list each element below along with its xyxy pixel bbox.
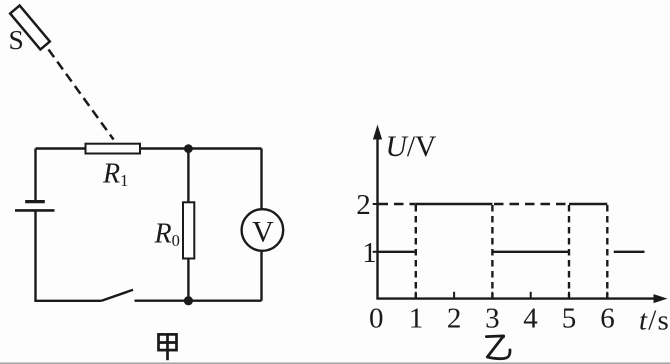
gridline dashed vertical t=3 bbox=[491, 205, 493, 298]
gridline dashed U=2 from axis to 1 bbox=[379, 203, 416, 205]
wire top-middle bbox=[140, 147, 262, 149]
gridline dashed vertical t=5 bbox=[568, 205, 570, 298]
caption yi (figure b) bbox=[486, 335, 510, 359]
scan artifact bottom line bbox=[0, 362, 670, 364]
x tick marks bbox=[416, 292, 608, 298]
caption jia (figure a) bbox=[159, 334, 177, 360]
waveform U=2 solid segment 5-6 bbox=[569, 203, 607, 205]
resistor R1 (photoresistor body) bbox=[86, 144, 141, 154]
svg-text:5: 5 bbox=[562, 303, 577, 335]
svg-text:V: V bbox=[252, 216, 274, 249]
svg-text:3: 3 bbox=[485, 303, 500, 335]
waveform U=1 solid segment 0-1 bbox=[378, 251, 416, 253]
node junction top bbox=[184, 144, 193, 153]
gridline dashed vertical t=6 bbox=[606, 205, 608, 298]
wire right vertical upper bbox=[260, 149, 262, 210]
svg-text:0: 0 bbox=[369, 303, 384, 335]
svg-text:4: 4 bbox=[523, 303, 538, 335]
wire bottom-left bbox=[35, 300, 102, 302]
battery long plate bbox=[15, 209, 55, 212]
switch blade bbox=[102, 290, 134, 301]
svg-text:6: 6 bbox=[600, 303, 615, 335]
light source S (lamp) bbox=[10, 6, 50, 50]
battery short plate bbox=[25, 200, 45, 203]
svg-text:S: S bbox=[9, 24, 24, 55]
wire top-left bbox=[36, 147, 86, 149]
resistor R0 body bbox=[183, 202, 194, 258]
wire bottom-right bbox=[135, 300, 262, 302]
gridline dashed vertical t=1 bbox=[415, 205, 417, 298]
wire right vertical lower bbox=[260, 251, 262, 301]
svg-text:1: 1 bbox=[362, 237, 377, 269]
wire left vertical lower bbox=[34, 210, 36, 302]
waveform U=1 solid segment 3-5 bbox=[492, 251, 569, 253]
dashed light ray bbox=[49, 50, 114, 140]
waveform U=2 solid segment 1-3 bbox=[416, 203, 493, 205]
y-axis U/V bbox=[373, 125, 382, 299]
voltmeter V bbox=[242, 209, 284, 251]
y tick marks bbox=[373, 204, 378, 252]
svg-text:1: 1 bbox=[409, 303, 424, 335]
node junction bottom bbox=[184, 296, 193, 305]
x-axis t/s bbox=[376, 294, 667, 303]
wire middle branch lower bbox=[187, 259, 189, 301]
svg-text:t/s: t/s bbox=[639, 305, 670, 337]
wire left vertical upper bbox=[34, 149, 36, 202]
svg-text:U/V: U/V bbox=[386, 131, 437, 163]
gridline dashed U=2 from 3 to 5 bbox=[494, 203, 569, 205]
waveform U=1 solid segment after 6 bbox=[614, 251, 645, 253]
svg-text:2: 2 bbox=[447, 303, 462, 335]
wire middle branch upper bbox=[187, 149, 189, 203]
svg-text:2: 2 bbox=[356, 189, 371, 221]
